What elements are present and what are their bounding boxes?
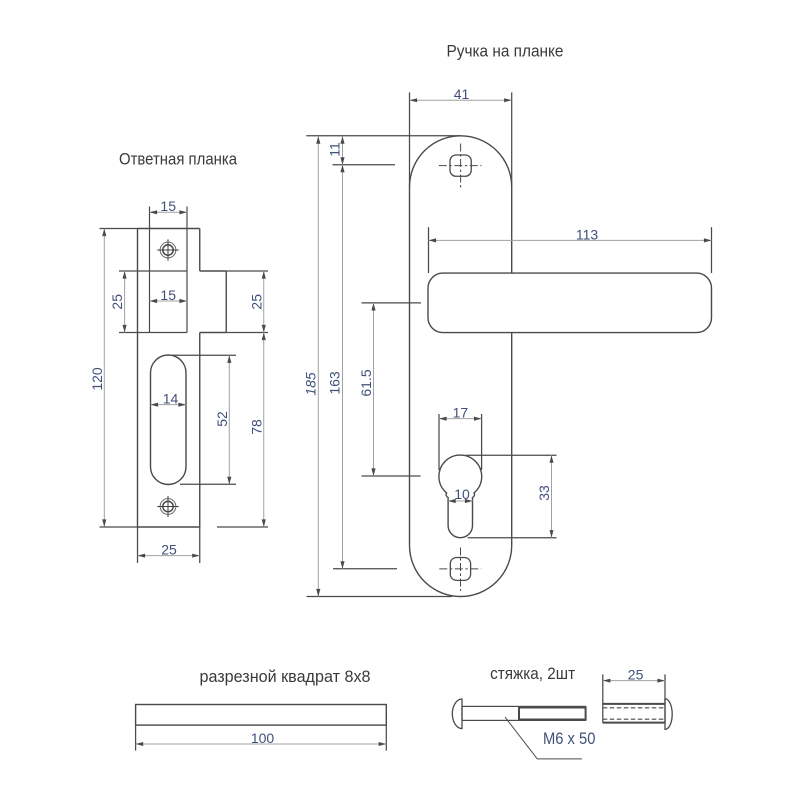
- svg-text:41: 41: [454, 86, 470, 102]
- svg-text:61.5: 61.5: [358, 369, 374, 396]
- svg-text:52: 52: [214, 411, 230, 427]
- svg-text:25: 25: [109, 294, 125, 310]
- svg-text:17: 17: [453, 405, 469, 421]
- svg-text:25: 25: [248, 294, 264, 310]
- svg-text:25: 25: [628, 667, 644, 683]
- svg-text:15: 15: [160, 287, 176, 303]
- svg-text:100: 100: [251, 730, 275, 746]
- svg-text:33: 33: [536, 485, 552, 501]
- svg-text:Ручка на планке: Ручка на планке: [447, 42, 564, 61]
- svg-text:стяжка, 2шт: стяжка, 2шт: [490, 664, 575, 683]
- svg-text:M6 x 50: M6 x 50: [543, 729, 595, 748]
- svg-text:113: 113: [576, 226, 599, 242]
- svg-text:Ответная планка: Ответная планка: [119, 150, 237, 169]
- svg-text:25: 25: [161, 542, 177, 558]
- svg-text:14: 14: [163, 391, 179, 407]
- svg-text:185: 185: [303, 372, 319, 396]
- svg-text:163: 163: [327, 371, 343, 395]
- svg-text:78: 78: [248, 419, 264, 435]
- svg-text:120: 120: [89, 367, 105, 391]
- svg-text:15: 15: [160, 198, 176, 214]
- svg-text:разрезной квадрат 8х8: разрезной квадрат 8х8: [200, 667, 371, 686]
- svg-text:11: 11: [327, 142, 343, 157]
- svg-text:10: 10: [454, 486, 470, 502]
